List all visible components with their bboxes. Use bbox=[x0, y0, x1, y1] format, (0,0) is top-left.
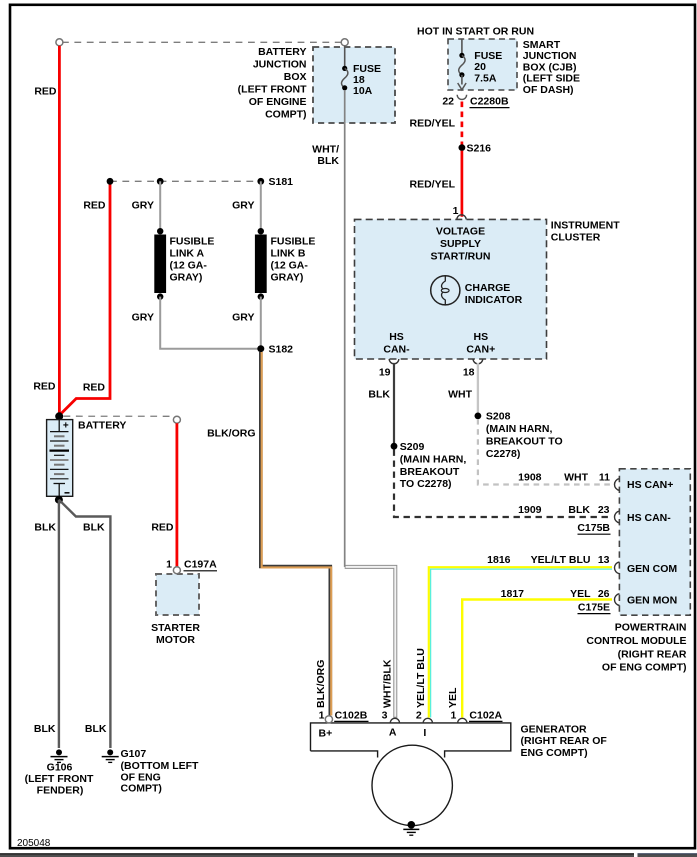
svg-text:YEL: YEL bbox=[570, 588, 591, 600]
PCM connector arc HS CAN+ bbox=[614, 479, 619, 491]
fusible link B bbox=[255, 228, 316, 300]
svg-text:LINK A: LINK A bbox=[170, 248, 205, 260]
svg-text:1: 1 bbox=[451, 710, 457, 722]
svg-text:YEL: YEL bbox=[447, 687, 459, 708]
wire RED/YEL dashed C2280B to S216 bbox=[461, 102, 464, 146]
svg-text:BREAKOUT: BREAKOUT bbox=[400, 466, 460, 478]
svg-text:FUSIBLE: FUSIBLE bbox=[271, 236, 316, 248]
splice S181 dashed wire bbox=[110, 180, 261, 182]
svg-text:BLK: BLK bbox=[34, 723, 56, 735]
svg-text:CONTROL MODULE: CONTROL MODULE bbox=[586, 635, 686, 647]
generator connector pin 1 C102A bbox=[458, 718, 467, 723]
svg-text:C2280B: C2280B bbox=[470, 96, 509, 108]
battery bbox=[47, 412, 127, 496]
svg-text:JUNCTION: JUNCTION bbox=[253, 59, 307, 71]
fuse F20 bbox=[458, 40, 503, 90]
wire WHT dashed S208 to PCM HS CAN+ (circuit 1908) bbox=[478, 419, 613, 485]
wire GRY from link A to S182 bbox=[160, 297, 257, 349]
svg-text:1909: 1909 bbox=[518, 504, 542, 516]
svg-text:VOLTAGE: VOLTAGE bbox=[436, 226, 485, 238]
svg-text:C2278): C2278) bbox=[486, 448, 520, 460]
svg-text:FUSIBLE: FUSIBLE bbox=[170, 236, 215, 248]
svg-text:S181: S181 bbox=[269, 176, 294, 188]
svg-text:3: 3 bbox=[382, 710, 388, 722]
svg-text:HS CAN-: HS CAN- bbox=[627, 512, 671, 524]
ground G107 bbox=[102, 748, 199, 795]
node S208 bbox=[475, 413, 482, 420]
svg-text:(12 GA-: (12 GA- bbox=[271, 260, 309, 272]
svg-text:RED: RED bbox=[151, 522, 174, 534]
svg-text:CLUSTER: CLUSTER bbox=[551, 231, 601, 243]
node S181 bbox=[257, 178, 264, 185]
svg-text:BLK: BLK bbox=[83, 522, 105, 534]
battery negative node bbox=[55, 496, 63, 504]
battery junction box bbox=[238, 46, 395, 123]
generator body bbox=[311, 723, 608, 826]
svg-text:BATTERY: BATTERY bbox=[258, 46, 306, 58]
svg-text:ENG COMPT): ENG COMPT) bbox=[521, 747, 588, 759]
svg-text:18: 18 bbox=[463, 366, 475, 378]
svg-text:(RIGHT REAR OF: (RIGHT REAR OF bbox=[521, 735, 608, 747]
wire BLK cluster to S209 bbox=[393, 363, 395, 444]
svg-text:OF ENGINE: OF ENGINE bbox=[249, 96, 307, 108]
svg-text:RED: RED bbox=[34, 86, 57, 98]
node S209 bbox=[391, 443, 398, 450]
svg-text:20: 20 bbox=[474, 61, 486, 73]
bottom scrollbar right segment bbox=[638, 854, 697, 857]
wire GRY to fusible link B bbox=[260, 181, 262, 231]
svg-text:SUPPLY: SUPPLY bbox=[440, 238, 481, 250]
wire GRY to fusible link A bbox=[159, 181, 161, 231]
svg-text:2: 2 bbox=[416, 710, 422, 722]
top dashed bus wire bbox=[62, 41, 342, 43]
svg-text:1: 1 bbox=[319, 710, 325, 722]
wire RED/YEL S216 to cluster bbox=[461, 151, 464, 217]
svg-text:1: 1 bbox=[166, 559, 172, 571]
svg-text:HS: HS bbox=[389, 331, 404, 343]
svg-text:BOX (CJB): BOX (CJB) bbox=[523, 61, 577, 73]
svg-text:1817: 1817 bbox=[501, 588, 525, 600]
svg-text:COMPT): COMPT) bbox=[265, 109, 306, 121]
fuse F18 bbox=[342, 46, 382, 97]
svg-text:HOT IN START OR RUN: HOT IN START OR RUN bbox=[417, 26, 534, 38]
svg-text:(LEFT FRONT: (LEFT FRONT bbox=[25, 773, 94, 785]
svg-text:OF ENG: OF ENG bbox=[121, 771, 161, 783]
wire RED to starter motor bbox=[175, 423, 178, 567]
svg-text:BATTERY: BATTERY bbox=[78, 420, 126, 432]
wire WHT cluster to S208 bbox=[448, 363, 478, 414]
svg-text:C102B: C102B bbox=[335, 710, 368, 722]
svg-text:GENERATOR: GENERATOR bbox=[521, 724, 588, 736]
svg-text:STARTER: STARTER bbox=[151, 622, 200, 634]
svg-text:GRAY): GRAY) bbox=[170, 272, 203, 284]
fusible link A bbox=[154, 228, 214, 300]
svg-text:HS CAN+: HS CAN+ bbox=[627, 479, 673, 491]
svg-text:CAN+: CAN+ bbox=[466, 344, 495, 356]
svg-text:GEN MON: GEN MON bbox=[627, 595, 677, 607]
charge indicator U1 bbox=[431, 276, 523, 307]
generator ground bbox=[403, 821, 419, 835]
wire WHT/BLK fuse18 to generator A bbox=[312, 90, 395, 718]
svg-text:BLK: BLK bbox=[568, 504, 590, 516]
svg-text:1: 1 bbox=[453, 205, 459, 217]
svg-text:(LEFT SIDE: (LEFT SIDE bbox=[523, 73, 580, 85]
svg-text:(BOTTOM LEFT: (BOTTOM LEFT bbox=[121, 760, 200, 772]
connector C2280B pin 22 bbox=[442, 95, 509, 108]
battery dashed wire to starter branch bbox=[64, 415, 174, 417]
smart junction box (CJB) bbox=[417, 26, 580, 96]
node: open circle starter branch bbox=[173, 416, 180, 423]
svg-text:WHT: WHT bbox=[564, 471, 588, 483]
cluster pin 18 connector bbox=[473, 359, 483, 364]
svg-text:BOX: BOX bbox=[284, 71, 307, 83]
svg-text:13: 13 bbox=[598, 554, 610, 566]
wire BLK dashed S209 to PCM HS CAN- (circuit 1909) bbox=[394, 450, 613, 518]
svg-text:(12 GA-: (12 GA- bbox=[170, 260, 208, 272]
svg-text:1908: 1908 bbox=[518, 471, 542, 483]
wire BLK/ORG from S182 to generator B+ bbox=[261, 352, 331, 716]
svg-text:START/RUN: START/RUN bbox=[431, 251, 491, 263]
svg-text:(RIGHT REAR: (RIGHT REAR bbox=[618, 648, 687, 660]
svg-text:GRY: GRY bbox=[232, 200, 254, 212]
node: open circle top left bbox=[56, 39, 63, 46]
svg-text:GEN COM: GEN COM bbox=[627, 563, 677, 575]
svg-text:G106: G106 bbox=[47, 761, 73, 773]
svg-text:(LEFT FRONT: (LEFT FRONT bbox=[238, 84, 307, 96]
wire BLK left to G106 bbox=[58, 500, 60, 748]
svg-text:INSTRUMENT: INSTRUMENT bbox=[551, 219, 620, 231]
svg-text:RED: RED bbox=[33, 381, 56, 393]
svg-text:RED/YEL: RED/YEL bbox=[409, 118, 455, 130]
svg-text:MOTOR: MOTOR bbox=[156, 634, 195, 646]
svg-text:LINK B: LINK B bbox=[271, 248, 306, 260]
PCM connector arc GEN COM bbox=[614, 562, 619, 574]
node S182 bbox=[257, 345, 264, 352]
svg-text:BLK: BLK bbox=[368, 389, 390, 401]
svg-text:CAN-: CAN- bbox=[383, 344, 410, 356]
svg-text:C102A: C102A bbox=[469, 710, 502, 722]
svg-text:+: + bbox=[63, 421, 69, 432]
svg-text:OF DASH): OF DASH) bbox=[523, 84, 574, 96]
svg-text:(MAIN HARN,: (MAIN HARN, bbox=[486, 423, 553, 435]
svg-text:C175E: C175E bbox=[578, 602, 610, 614]
node: open circle at fuse 18 top bbox=[341, 39, 348, 46]
svg-text:BLK: BLK bbox=[85, 723, 107, 735]
svg-text:OF ENG COMPT): OF ENG COMPT) bbox=[602, 662, 687, 674]
svg-text:10A: 10A bbox=[353, 85, 373, 97]
svg-text:A: A bbox=[389, 726, 397, 738]
svg-text:BLK: BLK bbox=[34, 522, 56, 534]
svg-text:WHT/: WHT/ bbox=[312, 144, 339, 156]
svg-text:JUNCTION: JUNCTION bbox=[523, 50, 577, 62]
svg-text:SMART: SMART bbox=[523, 39, 561, 51]
svg-text:(MAIN HARN,: (MAIN HARN, bbox=[400, 453, 467, 465]
svg-text:S208: S208 bbox=[486, 411, 511, 423]
svg-text:BLK/ORG: BLK/ORG bbox=[207, 428, 255, 440]
svg-text:HS: HS bbox=[474, 331, 489, 343]
svg-text:S209: S209 bbox=[400, 441, 425, 453]
svg-text:B+: B+ bbox=[319, 727, 333, 739]
svg-text:WHT: WHT bbox=[448, 389, 472, 401]
svg-text:I: I bbox=[423, 727, 426, 739]
wire BLK right to G107 bbox=[59, 500, 111, 748]
svg-text:BLK: BLK bbox=[317, 155, 339, 167]
svg-text:GRAY): GRAY) bbox=[271, 272, 304, 284]
svg-text:CHARGE: CHARGE bbox=[465, 282, 511, 294]
cluster pin 19 connector bbox=[389, 359, 399, 364]
svg-text:RED: RED bbox=[83, 382, 106, 394]
generator connector pin 2 bbox=[423, 718, 432, 723]
svg-text:GRY: GRY bbox=[232, 311, 254, 323]
powertrain control module box bbox=[586, 469, 690, 674]
svg-text:23: 23 bbox=[598, 504, 610, 516]
svg-text:G107: G107 bbox=[121, 748, 147, 760]
wire GRY link B to S182 bbox=[260, 297, 262, 346]
svg-text:POWERTRAIN: POWERTRAIN bbox=[615, 622, 687, 634]
svg-text:RED: RED bbox=[83, 200, 106, 212]
svg-text:C197A: C197A bbox=[184, 559, 217, 571]
PCM connector arc HS CAN- bbox=[614, 511, 619, 523]
svg-text:1816: 1816 bbox=[487, 554, 511, 566]
svg-text:11: 11 bbox=[599, 471, 610, 483]
svg-text:RED/YEL: RED/YEL bbox=[409, 179, 455, 191]
PCM connector arc GEN MON bbox=[614, 594, 619, 606]
svg-text:FUSE: FUSE bbox=[474, 50, 502, 62]
svg-text:TO C2278): TO C2278) bbox=[400, 478, 452, 490]
svg-text:S216: S216 bbox=[467, 143, 492, 155]
ground G106 bbox=[25, 749, 94, 796]
wire YEL/LT BLU PCM GEN COM to generator pin 2 (circuit 1816) bbox=[429, 554, 612, 717]
svg-text:GRY: GRY bbox=[132, 311, 154, 323]
svg-text:YEL/LT BLU: YEL/LT BLU bbox=[415, 648, 427, 708]
svg-text:C175B: C175B bbox=[577, 522, 610, 534]
instrument cluster box bbox=[355, 219, 621, 359]
svg-text:S182: S182 bbox=[269, 344, 294, 356]
svg-text:205048: 205048 bbox=[17, 838, 51, 849]
svg-text:7.5A: 7.5A bbox=[474, 73, 497, 85]
svg-text:BREAKOUT TO: BREAKOUT TO bbox=[486, 436, 563, 448]
svg-text:FENDER): FENDER) bbox=[37, 785, 84, 797]
svg-text:INDICATOR: INDICATOR bbox=[465, 294, 523, 306]
svg-text:COMPT): COMPT) bbox=[121, 783, 162, 795]
starter motor box bbox=[151, 574, 200, 646]
svg-text:GRY: GRY bbox=[132, 200, 154, 212]
wire RED from S181 to battery bbox=[59, 183, 110, 415]
svg-text:26: 26 bbox=[598, 588, 610, 600]
node S216 bbox=[459, 144, 466, 151]
svg-text:22: 22 bbox=[442, 96, 454, 108]
svg-text:YEL/LT BLU: YEL/LT BLU bbox=[531, 554, 591, 566]
wire RED left vertical bbox=[58, 46, 61, 414]
connector C197A pin 1 bbox=[173, 567, 180, 574]
svg-text:BLK/ORG: BLK/ORG bbox=[315, 660, 327, 708]
svg-text:19: 19 bbox=[379, 366, 391, 378]
generator connector pin B+ C102B bbox=[325, 716, 332, 723]
bottom scrollbar left segment bbox=[0, 854, 634, 857]
generator connector pin 3 (A) bbox=[390, 718, 399, 723]
svg-text:WHT/BLK: WHT/BLK bbox=[382, 659, 394, 708]
wire YEL PCM GEN MON to generator pin 1 (circuit 1817) bbox=[462, 588, 612, 718]
